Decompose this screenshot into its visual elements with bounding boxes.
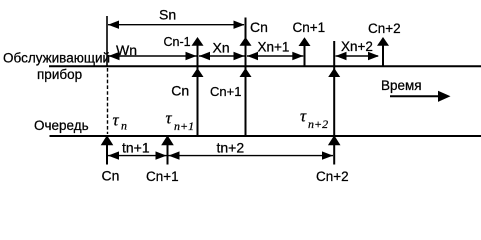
- svg-text:τ: τ: [300, 107, 307, 126]
- svg-text:tn+1: tn+1: [122, 139, 150, 155]
- svg-text:Cn+1: Cn+1: [293, 20, 326, 35]
- svg-text:Xn: Xn: [213, 39, 230, 55]
- svg-text:Cn: Cn: [171, 83, 189, 99]
- Wn interval arrow: [108, 55, 197, 57]
- vertical service-start line at x=107 (solid above server line): [106, 16, 108, 66]
- svg-text:Cn-1: Cn-1: [164, 35, 191, 49]
- svg-text:Cn: Cn: [102, 167, 120, 183]
- svg-text:τ: τ: [113, 111, 120, 130]
- svg-text:Sn: Sn: [159, 7, 176, 23]
- queue timeline: [50, 135, 481, 137]
- time axis arrow: [390, 95, 440, 97]
- svg-text:Xn+2: Xn+2: [341, 39, 373, 54]
- svg-text:n+2: n+2: [308, 117, 328, 131]
- Xn+1 interval arrow: [247, 55, 303, 57]
- arrival arrow Cn below queue line at x=107: [106, 140, 108, 165]
- departure arrow Cn+1 at x=304.5: [304, 40, 306, 66]
- svg-text:Cn: Cn: [250, 19, 268, 35]
- svg-text:Wn: Wn: [116, 42, 137, 58]
- arrival arrow Cn+1 below queue line at x=167.5: [167, 140, 169, 165]
- event line Cn at x=245.5: [245, 18, 247, 136]
- svg-text:Cn+2: Cn+2: [368, 21, 401, 36]
- dashed drop line at x=107: [107, 68, 109, 134]
- svg-text:Обслуживающий: Обслуживающий: [3, 51, 110, 66]
- Xn interval arrow: [199, 55, 245, 57]
- departure arrow Cn+2 at x=383: [382, 40, 384, 66]
- svg-text:n+1: n+1: [174, 119, 194, 133]
- svg-text:Очередь: Очередь: [34, 118, 89, 133]
- svg-text:Xn+1: Xn+1: [258, 40, 290, 55]
- svg-text:Cn+1: Cn+1: [210, 84, 241, 99]
- svg-text:n: n: [121, 119, 127, 133]
- Sn interval arrow: [108, 24, 244, 26]
- svg-text:τ: τ: [166, 109, 173, 128]
- svg-text:Cn+1: Cn+1: [146, 169, 179, 184]
- event line at x=334.2: [333, 41, 335, 165]
- svg-text:прибор: прибор: [37, 67, 82, 82]
- svg-text:Время: Время: [381, 78, 422, 93]
- Xn+2 interval arrow: [336, 55, 379, 57]
- tn+2 interval arrow: [169, 155, 334, 157]
- service-start event line at x=197.5: [197, 40, 199, 135]
- svg-text:tn+2: tn+2: [217, 139, 245, 155]
- tn+1 interval arrow: [108, 155, 167, 157]
- server timeline: [49, 65, 481, 67]
- svg-text:Cn+2: Cn+2: [316, 169, 349, 184]
